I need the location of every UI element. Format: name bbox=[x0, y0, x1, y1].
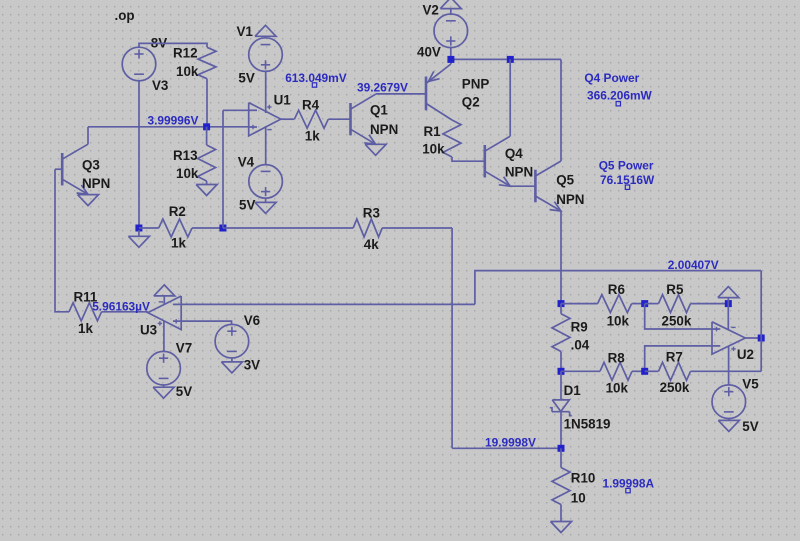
transistor Q1 bar bbox=[349, 103, 352, 135]
junction R12/R13 bbox=[203, 123, 210, 130]
ground below R10 bbox=[551, 522, 572, 533]
anchor marker 1.99998A bbox=[626, 488, 630, 492]
U3 plus input sign bbox=[174, 320, 178, 322]
resistor R2 bbox=[159, 219, 192, 237]
wire node 4V row bbox=[88, 126, 249, 128]
wire R2 left lead bbox=[139, 227, 159, 229]
transistor Q5 bar bbox=[534, 170, 537, 203]
wire Q4 emitter to Q5 base bbox=[510, 185, 535, 187]
wire V6 bottom stub bbox=[231, 358, 233, 362]
resistor R6 bbox=[598, 295, 632, 313]
wire V1 top stub bbox=[265, 36, 267, 38]
svg-text:R6: R6 bbox=[608, 282, 625, 297]
resistor R10 bbox=[552, 468, 570, 505]
Q5 emitter bbox=[535, 196, 561, 211]
wire V3 top to 8V node bbox=[139, 43, 207, 47]
svg-text:5V: 5V bbox=[238, 71, 254, 86]
junction V3/R2/ground bbox=[135, 225, 142, 232]
svg-text:R2: R2 bbox=[169, 204, 186, 219]
junction rail/Q4 collector bbox=[507, 56, 514, 63]
wire 39V node bbox=[376, 93, 426, 95]
U1 supply plus sign bbox=[267, 106, 271, 108]
resistor R3 bbox=[353, 219, 382, 237]
wire R6 left lead bbox=[561, 303, 598, 305]
svg-text:10: 10 bbox=[571, 491, 586, 506]
svg-text:4k: 4k bbox=[364, 237, 379, 252]
wire Q3 base to R11 bbox=[55, 169, 69, 312]
resistor R12 bbox=[198, 47, 216, 78]
svg-text:Q1: Q1 bbox=[370, 103, 388, 118]
U2 input stubs bbox=[712, 328, 720, 330]
voltage source V7 bbox=[147, 351, 181, 385]
wire R8 left lead bbox=[561, 370, 600, 372]
svg-text:.op: .op bbox=[115, 8, 135, 23]
ground below V6 bbox=[221, 362, 242, 373]
Q4 emitter bbox=[485, 171, 510, 186]
Q2 emitter bbox=[450, 59, 452, 64]
svg-text:R4: R4 bbox=[302, 98, 320, 113]
svg-text:2.00407V: 2.00407V bbox=[668, 258, 719, 272]
svg-text:5.96163µV: 5.96163µV bbox=[92, 300, 150, 314]
svg-text:39.2679V: 39.2679V bbox=[357, 80, 408, 94]
ground above U3 bbox=[154, 285, 175, 296]
voltage source V6 bbox=[215, 324, 249, 358]
wire R5 left lead bbox=[645, 303, 659, 305]
svg-text:250k: 250k bbox=[662, 314, 692, 329]
svg-text:5V: 5V bbox=[176, 384, 192, 399]
ground above U2 bbox=[718, 287, 739, 298]
wire V2 bottom bbox=[450, 48, 452, 60]
svg-text:Q4: Q4 bbox=[505, 146, 523, 161]
junction Q5 emitter/R9/R6 bbox=[558, 300, 565, 307]
wire R8 right lead bbox=[632, 370, 645, 372]
svg-text:.04: .04 bbox=[571, 338, 590, 353]
svg-text:250k: 250k bbox=[660, 380, 690, 395]
junction R5/ground/U2 Vminus bbox=[725, 300, 732, 307]
wire R10 top lead bbox=[560, 448, 562, 467]
resistor R1 bbox=[443, 120, 461, 157]
svg-text:R8: R8 bbox=[608, 351, 626, 366]
wire R3 to output node vertical bbox=[451, 228, 453, 448]
U3 supply minus sign bbox=[159, 301, 163, 303]
resistor R5 bbox=[659, 295, 691, 313]
wire R13 top lead bbox=[206, 127, 208, 145]
svg-text:40V: 40V bbox=[417, 45, 441, 60]
anchor marker Q4 power bbox=[616, 102, 620, 106]
U1 input stubs bbox=[249, 109, 257, 111]
svg-text:10k: 10k bbox=[422, 142, 445, 157]
U1 positive supply pin bbox=[265, 71, 267, 113]
junction U2 output bbox=[758, 335, 765, 342]
U1 negative supply pin bbox=[265, 126, 267, 165]
anchor marker Q5 power bbox=[625, 185, 629, 189]
op-amp U3 body bbox=[148, 296, 181, 330]
wire U1 output bbox=[281, 118, 295, 120]
svg-text:1N5819: 1N5819 bbox=[564, 417, 611, 432]
ground below R2 left bbox=[138, 230, 140, 236]
U1 minus input sign bbox=[251, 109, 255, 111]
svg-text:1k: 1k bbox=[78, 321, 93, 336]
wire D1 cathode lead bbox=[560, 412, 562, 449]
svg-text:V7: V7 bbox=[176, 341, 192, 356]
wire R3 left lead bbox=[223, 227, 353, 229]
wire R7 right lead bbox=[691, 370, 762, 372]
wire V5 bottom stub bbox=[728, 419, 730, 421]
ground above V2 bbox=[440, 0, 461, 9]
svg-text:V4: V4 bbox=[238, 154, 255, 169]
ground below Q3 bbox=[78, 195, 99, 206]
svg-text:R1: R1 bbox=[424, 124, 442, 139]
Q1 emitter bbox=[351, 129, 376, 144]
Q3 collector bbox=[62, 144, 88, 159]
voltage source V5 bbox=[712, 385, 746, 419]
svg-text:10k: 10k bbox=[176, 166, 199, 181]
wire R3 right lead bbox=[382, 227, 452, 229]
svg-text:D1: D1 bbox=[564, 383, 582, 398]
Q1 collector bbox=[351, 94, 376, 109]
wire R5 right lead bbox=[691, 303, 729, 305]
ground below V7 bbox=[153, 387, 174, 398]
wire U2 inv input bbox=[645, 346, 712, 371]
transistor Q2 bar bbox=[425, 77, 428, 111]
svg-text:V6: V6 bbox=[244, 313, 260, 328]
junction V2/Q2 bbox=[447, 56, 454, 63]
svg-text:V5: V5 bbox=[742, 376, 759, 391]
U1 supply minus sign bbox=[267, 129, 271, 131]
ground above V1 bbox=[255, 25, 276, 36]
U2 positive supply pin bbox=[728, 346, 730, 385]
wire output vertical bbox=[760, 271, 762, 372]
transistor Q4 bar bbox=[483, 145, 486, 178]
svg-text:R7: R7 bbox=[666, 349, 683, 364]
svg-text:10k: 10k bbox=[176, 64, 199, 79]
wire 20V node bbox=[452, 447, 561, 449]
wire U2 Vminus pin bbox=[727, 298, 729, 330]
svg-text:NPN: NPN bbox=[556, 192, 584, 207]
voltage source V1 bbox=[249, 38, 283, 72]
svg-text:NPN: NPN bbox=[82, 176, 110, 191]
U3 supply plus sign bbox=[158, 322, 162, 324]
wire R2 right lead bbox=[192, 227, 223, 229]
svg-text:Q4 Power: Q4 Power bbox=[584, 71, 639, 85]
voltage source V4 bbox=[249, 165, 283, 199]
svg-text:U3: U3 bbox=[140, 323, 157, 338]
junction R2/R3/feedback bbox=[219, 225, 226, 232]
diode D1 body bbox=[552, 400, 569, 412]
U3 input stubs bbox=[173, 303, 181, 305]
U2 minus input sign bbox=[714, 345, 718, 347]
svg-text:19.9998V: 19.9998V bbox=[485, 435, 536, 449]
svg-text:R12: R12 bbox=[173, 46, 198, 61]
U3 minus input sign bbox=[174, 303, 178, 305]
ground below Q1 bbox=[365, 144, 386, 155]
voltage source V2 bbox=[434, 14, 468, 48]
svg-text:R9: R9 bbox=[571, 319, 588, 334]
wire 40V rail bbox=[451, 58, 561, 60]
wire V7 bottom stub bbox=[163, 385, 165, 387]
resistor R7 bbox=[659, 362, 691, 380]
op-amp U1 body bbox=[249, 103, 281, 136]
U2 plus input sign bbox=[714, 328, 718, 330]
U3 Vminus supply pin bbox=[163, 296, 165, 305]
resistor R11 bbox=[69, 303, 102, 321]
ground below V5 bbox=[718, 420, 739, 431]
svg-text:5V: 5V bbox=[742, 419, 758, 434]
svg-text:R5: R5 bbox=[666, 282, 684, 297]
resistor R13 bbox=[198, 145, 216, 181]
svg-text:NPN: NPN bbox=[505, 164, 533, 179]
junction R9/D1/R8 bbox=[558, 368, 565, 375]
wire R12 bottom bbox=[206, 79, 208, 127]
junction R6/R5 bbox=[641, 300, 648, 307]
resistor R9 bbox=[552, 314, 570, 352]
svg-text:1k: 1k bbox=[171, 236, 186, 251]
wire R1 bottom lead bbox=[452, 157, 485, 161]
U2 supply plus sign bbox=[731, 348, 735, 350]
svg-text:5V: 5V bbox=[239, 198, 255, 213]
wire V2 top stub bbox=[450, 9, 452, 14]
svg-text:V3: V3 bbox=[152, 78, 168, 93]
svg-text:V1: V1 bbox=[237, 24, 254, 39]
svg-text:1k: 1k bbox=[305, 129, 320, 144]
U2 output wire bbox=[745, 337, 761, 339]
svg-text:3V: 3V bbox=[244, 358, 260, 373]
wire R13 bottom lead bbox=[206, 181, 208, 185]
transistor Q3 bar bbox=[61, 153, 64, 185]
wire R7 left lead bbox=[645, 370, 659, 372]
Q4 collector bbox=[485, 136, 510, 151]
wire R9 top lead bbox=[560, 304, 562, 314]
voltage source V3 bbox=[122, 47, 156, 81]
wire R4 to Q1 base bbox=[328, 118, 350, 120]
svg-text:Q5 Power: Q5 Power bbox=[599, 159, 654, 173]
op-amp U2 body bbox=[712, 322, 745, 354]
Q3 emitter bbox=[62, 179, 88, 194]
svg-text:R13: R13 bbox=[173, 148, 198, 163]
diode D1 cathode bar bbox=[552, 411, 570, 413]
wire U3 bottom input to V6 bbox=[181, 321, 231, 324]
wire feedback vertical bbox=[222, 110, 224, 228]
svg-text:3.99996V: 3.99996V bbox=[148, 113, 199, 127]
wire R11 right lead bbox=[102, 311, 148, 313]
svg-text:Q3: Q3 bbox=[82, 158, 100, 173]
Q2 collector bbox=[426, 103, 452, 120]
wire R9 bottom lead bbox=[560, 352, 562, 372]
ground below V4 bbox=[255, 202, 276, 213]
svg-text:U1: U1 bbox=[274, 93, 292, 108]
wire U2 noninv input bbox=[645, 304, 712, 329]
svg-text:Q5: Q5 bbox=[556, 173, 574, 188]
Q5 collector bbox=[535, 161, 561, 176]
svg-text:R10: R10 bbox=[571, 471, 596, 486]
wire R6 right lead bbox=[632, 303, 645, 305]
svg-text:10k: 10k bbox=[607, 314, 630, 329]
junction R8/R7 bbox=[641, 368, 648, 375]
anchor marker 613mV bbox=[312, 83, 316, 87]
svg-text:Q2: Q2 bbox=[462, 95, 480, 110]
wire U3 top input net bbox=[181, 303, 475, 305]
Q3 base stub bbox=[55, 168, 62, 170]
U2 supply minus sign bbox=[731, 326, 735, 328]
svg-text:R3: R3 bbox=[363, 205, 380, 220]
wire V3 bottom to ground junction bbox=[138, 81, 140, 228]
wire U1 inverting input bbox=[223, 109, 249, 111]
ground below R13 bbox=[196, 185, 217, 196]
U1 plus input sign bbox=[251, 126, 255, 128]
svg-text:PNP: PNP bbox=[462, 77, 490, 92]
svg-text:V2: V2 bbox=[423, 3, 439, 18]
wire D1 anode lead bbox=[560, 371, 562, 400]
svg-text:U2: U2 bbox=[737, 347, 754, 362]
resistor R4 bbox=[294, 110, 328, 128]
svg-text:NPN: NPN bbox=[370, 122, 398, 137]
resistor R8 bbox=[600, 362, 632, 380]
wire V4 bottom stub bbox=[265, 198, 267, 202]
U3 Vplus supply pin bbox=[163, 321, 165, 352]
wire 2.00407V net bbox=[475, 271, 761, 305]
svg-text:10k: 10k bbox=[606, 381, 629, 396]
svg-text:366.206mW: 366.206mW bbox=[587, 89, 653, 103]
junction D1/R10 bbox=[558, 445, 565, 452]
wire R10 bottom lead bbox=[560, 505, 562, 522]
